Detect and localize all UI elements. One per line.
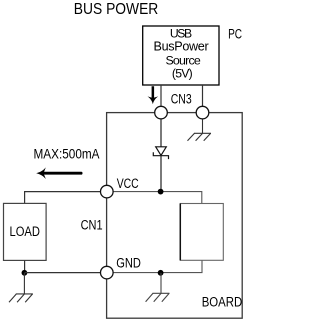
wire diode cathode to VCC node <box>160 156 162 192</box>
wire LOAD bottom to GND rail <box>24 260 26 272</box>
component box left edge (dark) <box>179 204 181 261</box>
svg-text:BusPower: BusPower <box>154 40 209 54</box>
ground symbol below LOAD <box>9 294 33 302</box>
wire GND rail external <box>25 272 101 274</box>
wire CN3 pin 2 to ground <box>202 120 204 134</box>
ground symbol below GND rail <box>146 293 170 301</box>
wire CN3 pin 1 to diode anode <box>160 120 162 147</box>
connector CN1 GND pin (circle) <box>101 266 114 279</box>
load box LOAD <box>4 203 47 260</box>
diode D1 (zener, cathode down) <box>153 147 168 159</box>
wire USB box to CN3 pin 1 <box>160 85 162 107</box>
svg-text:LOAD: LOAD <box>10 223 41 239</box>
svg-text:MAX:500mA: MAX:500mA <box>34 146 100 162</box>
current flow arrow (left) <box>36 167 82 179</box>
svg-text:GND: GND <box>116 255 141 271</box>
connector CN1 VCC pin (circle) <box>101 185 114 198</box>
junction dot VCC internal <box>158 189 164 195</box>
component box (on-board circuit) <box>180 204 223 261</box>
wire VCC node to LOAD (external) <box>25 192 101 204</box>
svg-text:CN3: CN3 <box>171 91 192 107</box>
svg-text:PC: PC <box>228 26 242 42</box>
label USB BusPower Source (5V) <box>154 27 209 81</box>
wire GND node to internal circuit <box>113 260 202 272</box>
board outline BOARD <box>107 113 243 319</box>
wire junction to ground symbol <box>23 273 25 294</box>
svg-text:Source: Source <box>165 53 200 67</box>
connector CN3 pin 1 (circle) <box>155 106 168 119</box>
ground symbol below CN3 <box>188 133 212 141</box>
svg-text:CN1: CN1 <box>81 217 103 233</box>
svg-text:BOARD: BOARD <box>202 293 243 309</box>
junction dot at LOAD ground <box>22 270 28 276</box>
wire VCC node to internal circuit <box>113 192 202 204</box>
svg-text:VCC: VCC <box>117 175 139 191</box>
svg-text:(5V): (5V) <box>172 67 193 81</box>
svg-text:BUS POWER: BUS POWER <box>74 1 159 18</box>
junction dot GND internal <box>158 270 164 276</box>
current flow arrow (down) <box>148 86 159 104</box>
wire USB box to CN3 pin 2 <box>202 85 204 107</box>
connector CN3 pin 2 (circle) <box>196 106 209 119</box>
USB power source box U1 <box>143 26 219 85</box>
wire junction to ground symbol internal <box>160 273 162 294</box>
